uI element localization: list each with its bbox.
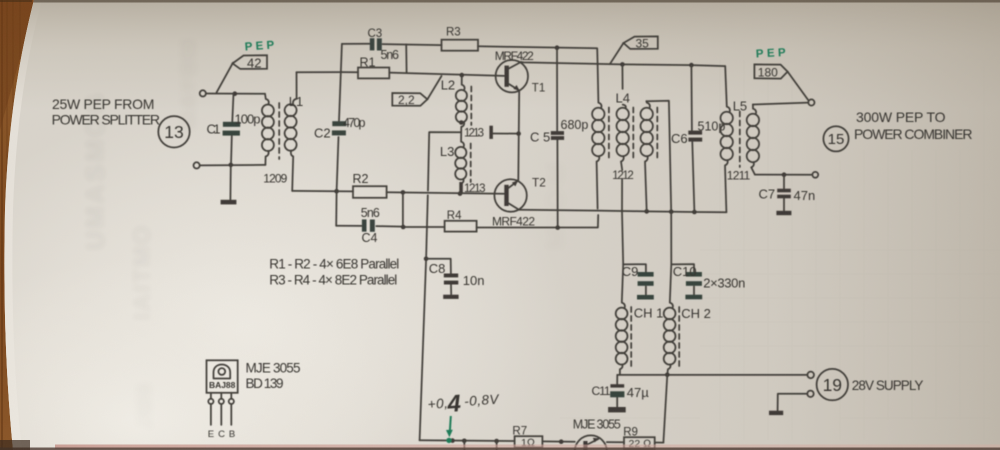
leader from 2,2 flag bbox=[427, 76, 441, 99]
ground below C7 bbox=[776, 211, 791, 215]
junction dot C5 bottom bbox=[555, 225, 560, 230]
junction dots on rails bbox=[620, 62, 625, 67]
capacitor C3 bbox=[370, 38, 375, 50]
node: input terminal top bbox=[200, 90, 206, 96]
pink bottom strip bbox=[55, 445, 1000, 450]
capacitor C4 bbox=[362, 219, 367, 231]
choke CH1 bbox=[616, 264, 632, 374]
capacitor C7 bbox=[783, 175, 785, 211]
junction dot CH2 bottom bbox=[665, 373, 670, 378]
resistor R1 bbox=[342, 72, 504, 76]
wire: L1 bottom to node B bbox=[292, 190, 336, 192]
junction dot L2 top bbox=[460, 73, 465, 78]
wire: lower supply terminal to ground bbox=[778, 394, 808, 411]
tick C3/R1 junction bbox=[405, 44, 407, 72]
resistor R9 bbox=[624, 437, 655, 449]
junction dot C1 top bbox=[233, 91, 238, 96]
capacitor C1 bbox=[230, 94, 233, 200]
L4 coil 3 bbox=[641, 101, 672, 265]
ground at supply bbox=[769, 411, 783, 415]
transformer L1 bbox=[262, 72, 297, 191]
ground below C1 bbox=[221, 200, 237, 205]
flag 42 bbox=[233, 55, 267, 69]
green annotation +0,4-0,8V bbox=[427, 390, 501, 418]
capacitor C2 bbox=[332, 121, 346, 126]
emitter line T1-T2 bbox=[517, 91, 520, 180]
wire: L5 bottom to lower output terminal bbox=[755, 174, 812, 176]
vertical C4-R2 junction bbox=[402, 192, 404, 226]
capacitor C5 line bbox=[556, 48, 559, 228]
wire: C3 top rail bbox=[342, 44, 598, 64]
junction dot L2 bottom bbox=[459, 120, 464, 125]
resistor R7 bbox=[515, 436, 543, 447]
leader from 180 flag bbox=[788, 72, 809, 101]
wire: top terminal to C1/L1 bbox=[206, 93, 265, 95]
wire: supply rail bbox=[617, 374, 807, 376]
ground below C8 bbox=[443, 295, 458, 299]
node: supply terminal bottom bbox=[807, 391, 813, 397]
bus vertical node A to C4 bbox=[336, 44, 342, 226]
L4 coil 1 (primary) bbox=[592, 64, 609, 209]
junction dot emitter line bbox=[516, 131, 521, 136]
ferrite bead lower (L3 bottom) bbox=[459, 182, 463, 194]
junction dot C5 top bbox=[555, 45, 560, 50]
wire: bottom terminal to C1/L1 bbox=[200, 164, 265, 167]
L5 transformer bbox=[721, 66, 760, 212]
node: supply terminal top bbox=[807, 372, 814, 379]
junction node B bbox=[334, 189, 339, 194]
TO-126 package outline bbox=[207, 360, 238, 425]
transistor MJE3055 (bias) bbox=[575, 435, 607, 450]
flag 2,2 bbox=[392, 93, 427, 106]
capacitor C11 bbox=[616, 375, 618, 407]
wire: T1 collector to rail bbox=[521, 62, 725, 66]
inductor L2 bbox=[456, 75, 472, 132]
junction dot L3 bottom on R2 wire bbox=[458, 191, 463, 196]
choke CH2 bbox=[664, 264, 680, 374]
ferrite bead upper (midpoint) bbox=[489, 126, 493, 139]
resistor R3 bbox=[442, 40, 479, 51]
resistor R2 bbox=[337, 191, 504, 194]
flag 180 bbox=[754, 64, 787, 78]
inductor L3 bbox=[455, 132, 471, 183]
wire: L5 to top output terminal bbox=[753, 103, 808, 105]
junction dot C8 bbox=[424, 257, 429, 262]
junction dot R2 right bbox=[401, 190, 406, 195]
wire: C4 row bbox=[336, 225, 403, 228]
green dot on rail bbox=[446, 438, 451, 443]
stubs below rail bbox=[464, 441, 496, 450]
flag 35 bbox=[624, 36, 658, 49]
transistor T2 MRF422 bbox=[494, 179, 526, 211]
capacitor C8 bbox=[426, 259, 451, 295]
faint grid bleed bbox=[560, 60, 1000, 440]
green arrow bbox=[450, 416, 451, 432]
L4 coil 2 bbox=[617, 64, 634, 264]
resistor R4 bbox=[403, 215, 598, 228]
leader from 35 flag bbox=[610, 43, 624, 64]
ground below C11 bbox=[608, 407, 626, 412]
node circle 13 bbox=[158, 116, 189, 147]
node circle 15 bbox=[823, 126, 848, 151]
ground below C9 bbox=[637, 295, 654, 300]
capacitor C9 bbox=[623, 264, 646, 294]
page edge highlight bbox=[4, 0, 42, 450]
wire: bead to emitter line bbox=[493, 133, 519, 135]
wire: leader diagonal from flag 42 bbox=[217, 63, 234, 93]
capacitor C6 bbox=[691, 65, 694, 212]
wire: L1 top to node A bbox=[297, 71, 342, 73]
wire: midpoint detour to C8 line bbox=[420, 132, 462, 440]
node: input terminal bottom bbox=[194, 162, 200, 168]
junction dot C1 bottom bbox=[229, 163, 234, 168]
node circle 19 bbox=[817, 369, 848, 400]
node: output terminal top bbox=[808, 99, 814, 105]
wire: bias rail bbox=[420, 440, 664, 442]
bleed-through ghost text (reverse page) bbox=[80, 38, 571, 430]
capacitor C10 bbox=[671, 264, 694, 294]
junction dots on bias rail bbox=[450, 438, 455, 443]
wire: T2 collector rail bbox=[519, 210, 726, 213]
junction dot C7 bbox=[782, 172, 787, 177]
wire: CH2 bottom down to bias rail bbox=[663, 375, 667, 443]
node: output terminal bottom bbox=[812, 172, 818, 178]
junction dot C4 right bbox=[401, 225, 406, 230]
transistor T1 MRF422 bbox=[496, 60, 528, 92]
ground below C10 bbox=[685, 295, 702, 300]
